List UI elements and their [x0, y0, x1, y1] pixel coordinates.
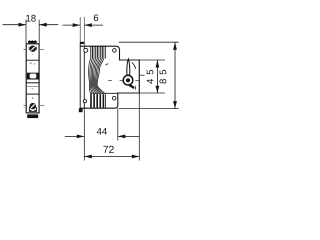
dim 6 line left tail — [63, 24, 81, 26]
rear face ext (6 dim) — [79, 17, 81, 44]
dim 6 arrow right — [84, 23, 92, 27]
dim 6 arrow left — [73, 23, 81, 27]
rivet hole bottom — [112, 96, 116, 100]
pivot centerline dashes — [108, 79, 112, 81]
top screw — [30, 46, 36, 52]
dim 72 label — [103, 146, 113, 153]
dim 18 line right tail — [39, 24, 58, 26]
dim 18 extension line right — [38, 20, 40, 44]
flange hole top — [84, 48, 88, 52]
mold mark squiggle — [106, 64, 109, 65]
dim 45 arrow top — [156, 60, 160, 68]
dim 72 arrow right — [132, 155, 140, 159]
dim 18 arrow left — [19, 23, 27, 27]
dim 44 arrow left — [77, 135, 85, 139]
top screw centerline dashes — [24, 48, 26, 50]
dim 45 line — [156, 60, 158, 93]
case rib S-curve fan — [89, 59, 105, 94]
tiny dot — [32, 97, 34, 99]
rail seat ext bottom (44/72 dims) — [83, 108, 85, 160]
top terminal block — [28, 41, 37, 43]
rivet hole top — [113, 49, 117, 53]
dim 45 arrow bottom — [156, 86, 160, 94]
lower travel arc — [134, 86, 137, 90]
dim 45 top extension — [120, 59, 166, 61]
rail seat ext top (6 dim) — [83, 17, 85, 46]
toggle pivot outer — [123, 75, 133, 85]
dim 85 bottom extension — [119, 108, 179, 110]
bottom screw centerline dashes — [24, 105, 26, 107]
case ribs top band — [91, 46, 106, 58]
bottom screw — [30, 103, 36, 109]
dim 6 label — [94, 14, 98, 21]
lever travel arc — [132, 62, 136, 68]
lower lever stub — [129, 84, 135, 89]
dim 44 extension (body right face lower) — [117, 108, 119, 141]
dim 85 line — [174, 42, 176, 108]
dim 44 line right tail — [118, 135, 140, 137]
dim 18 extension line left — [25, 20, 27, 44]
dim 72 line — [84, 156, 139, 158]
dim 44 line left tail — [65, 135, 85, 137]
flange hole bottom — [83, 100, 86, 103]
nose center tick — [140, 74, 145, 76]
dim 18 arrow right — [39, 23, 47, 27]
dim 85 label (rotated) — [160, 70, 167, 84]
dim 6 line right tail — [84, 24, 103, 26]
dim 85 arrow bottom — [173, 101, 177, 109]
dim 72 arrow left — [84, 155, 92, 159]
toggle band — [27, 73, 39, 80]
top rear tab — [80, 42, 85, 44]
bottom terminal block — [27, 114, 38, 118]
label print marks — [30, 62, 32, 64]
rail seat line — [83, 46, 85, 108]
dim 72 right extension (front face prolonged) — [138, 60, 140, 161]
toggle handle window — [30, 74, 37, 79]
dim 85 top extension — [119, 41, 179, 43]
face line — [26, 59, 39, 61]
dim 44 label — [97, 128, 107, 135]
dim 45 label (rotated) — [147, 70, 154, 84]
dim 44 arrow right — [118, 135, 126, 139]
rib base line — [90, 92, 118, 94]
top terminal cage bars — [28, 47, 30, 50]
rear face line — [79, 44, 81, 109]
body outline — [80, 46, 139, 108]
bottom clip bars — [91, 94, 103, 108]
dim 18 line left tail — [3, 24, 27, 26]
tiny mark under screw — [32, 54, 33, 55]
toggle pivot center — [126, 78, 130, 82]
front view body box — [26, 44, 39, 113]
toggle lever blade — [127, 59, 130, 75]
dim 45 bottom extension — [118, 92, 165, 94]
bottom rear tab — [79, 108, 83, 112]
dim 85 arrow top — [173, 42, 177, 50]
dim 18 label — [26, 15, 36, 22]
bottom terminal cage — [29, 107, 36, 111]
label lines — [26, 82, 39, 84]
